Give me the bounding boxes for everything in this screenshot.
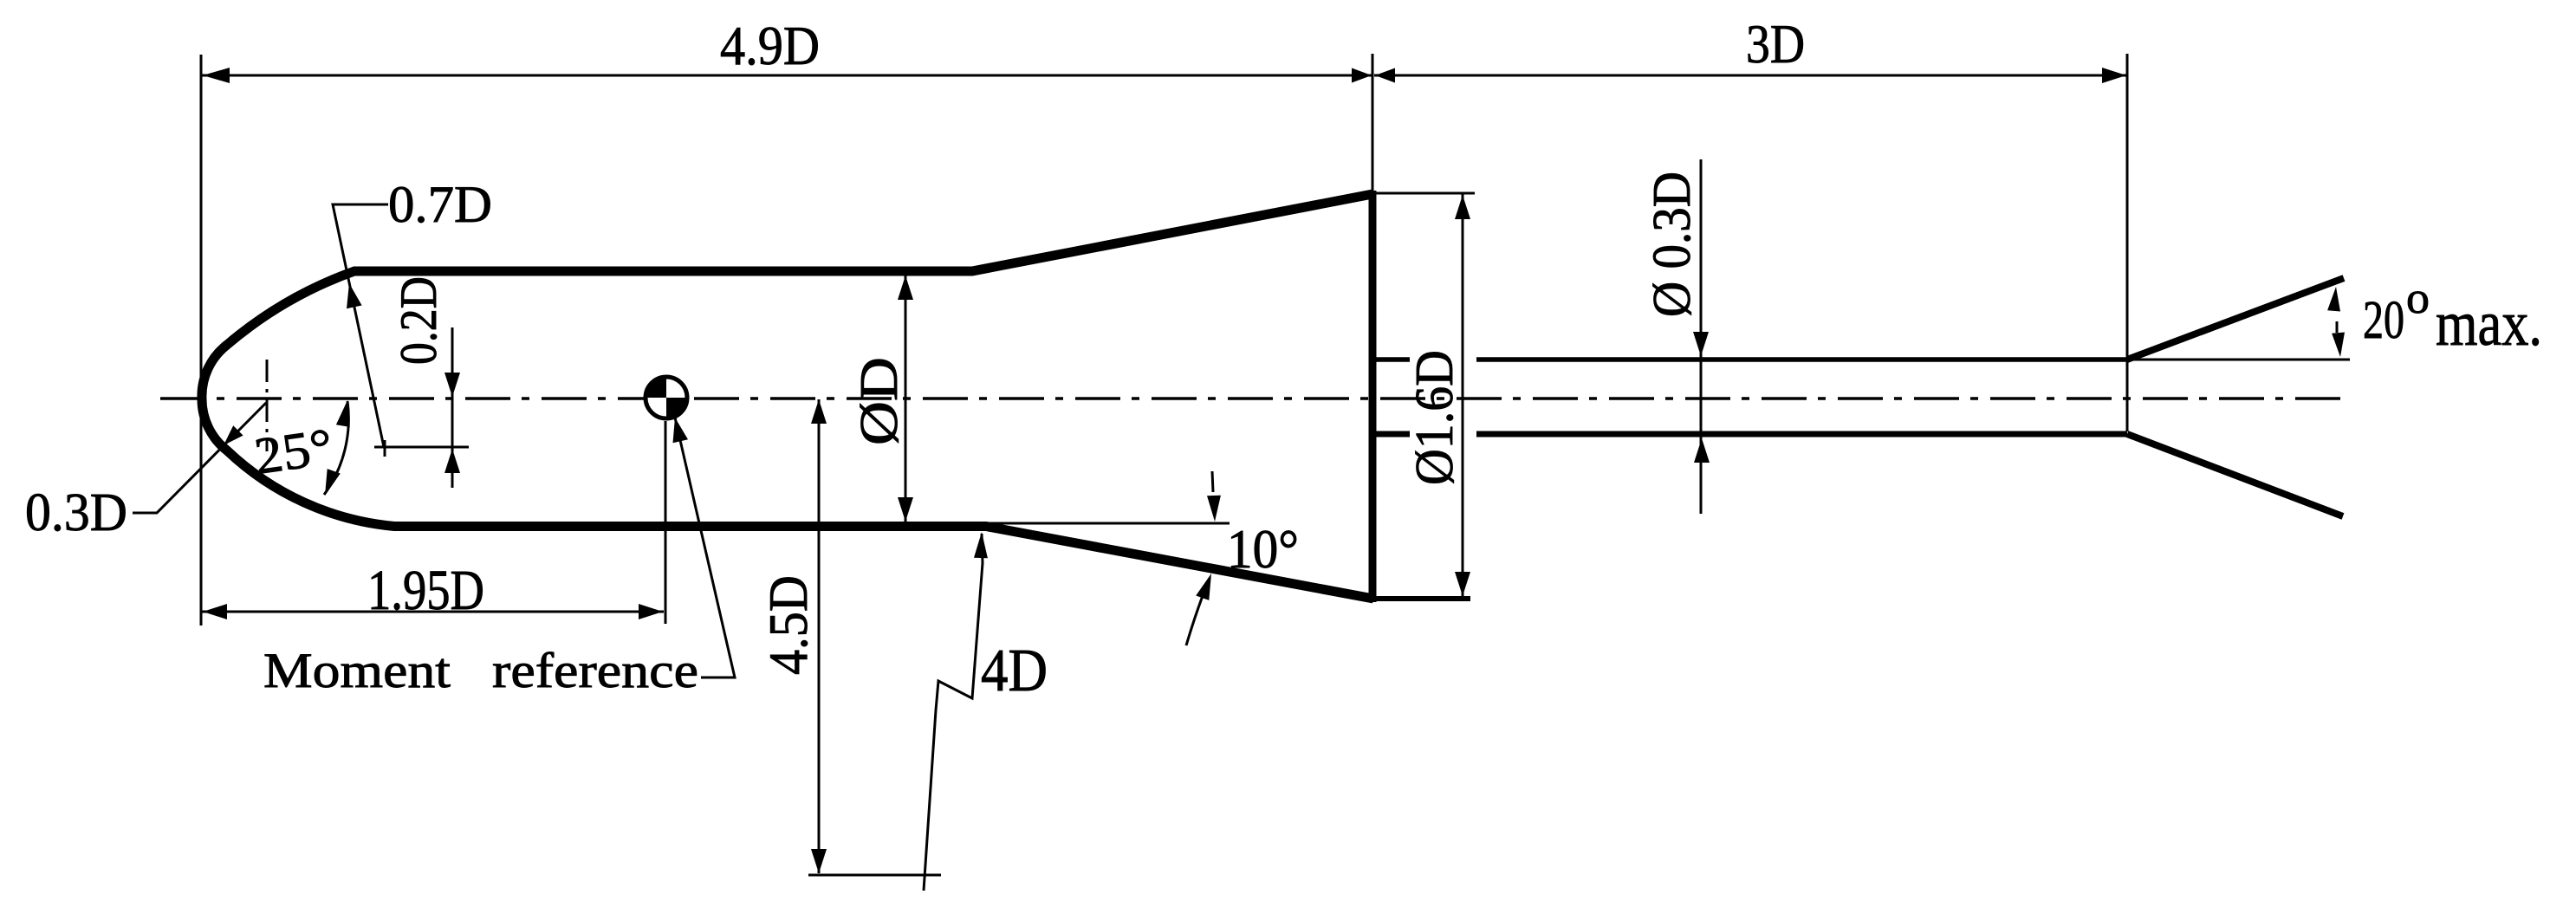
svg-text:1.95D: 1.95D [367, 559, 484, 622]
svg-text:ØD: ØD [850, 357, 909, 445]
moment reference symbol (CG circle) [646, 377, 687, 418]
sting lower surface [1376, 431, 2127, 438]
model centerline (dash-dot axis) [160, 397, 2344, 400]
model body outline: nose, cylinder, 10-deg flare [202, 194, 1373, 599]
extension line at sting end [2126, 54, 2129, 431]
20 deg dimension (dashed with arrows) [2336, 321, 2339, 333]
svg-text:max.: max. [2436, 288, 2542, 360]
tip radius centre marker (dash-dot vertical) [266, 360, 269, 451]
svg-text:o: o [2406, 274, 2430, 323]
dimension line 3D [1374, 75, 2127, 77]
dimension line 0.2D [451, 327, 454, 488]
10 deg lower leader arc [1186, 579, 1210, 645]
sting taper upper line (20 deg) [2127, 278, 2344, 360]
dimension line 4.5D [818, 399, 821, 873]
extension line at nose tip [200, 55, 203, 626]
leader for 0.3D tip radius [133, 403, 266, 513]
dimension line 1.6D [1462, 194, 1464, 597]
svg-text:reference: reference [492, 644, 698, 698]
dimension line 4.9D [202, 75, 1372, 77]
10 deg upper arrow with extension [1212, 471, 1213, 492]
svg-text:25°: 25° [251, 418, 336, 485]
leader from moment reference text to symbol [675, 418, 735, 677]
svg-text:4D: 4D [981, 638, 1048, 704]
thin horizontal reference line for 20 deg angle [2127, 359, 2350, 361]
svg-text:20: 20 [2363, 291, 2404, 350]
model base (flare base vertical line) [1369, 191, 1377, 602]
dimension line sting diameter 0.3D [1700, 159, 1703, 514]
sting taper lower line (20 deg) [2127, 434, 2343, 516]
svg-text:Moment: Moment [263, 644, 451, 698]
sting upper surface [1376, 357, 2127, 362]
svg-text:10°: 10° [1227, 519, 1299, 580]
leader with break for 4D station [924, 534, 983, 891]
svg-text:0.3D: 0.3D [25, 483, 127, 542]
svg-text:4.5D: 4.5D [757, 575, 819, 675]
extension line below moment centre [665, 421, 667, 624]
svg-text:Ø1.6D: Ø1.6D [1405, 350, 1464, 485]
0.7D arc centre cross [374, 440, 469, 457]
leader for 0.7D radius [333, 204, 388, 447]
angular dimension arc 25 deg [324, 401, 348, 495]
dimension line 1.95D [202, 611, 664, 613]
base top extension (thin) [1372, 192, 1475, 195]
extension line at flare base (top) [1372, 54, 1374, 193]
dimension line for body diameter D [905, 275, 907, 522]
base bottom extension (thick) [1372, 596, 1470, 601]
bottom datum line [808, 874, 941, 877]
svg-text:0.2D: 0.2D [390, 276, 447, 365]
svg-text:Ø 0.3D: Ø 0.3D [1643, 172, 1702, 317]
svg-text:0.7D: 0.7D [388, 176, 492, 233]
thin reference line extending cylinder bottom [986, 522, 1230, 525]
svg-text:3D: 3D [1746, 14, 1805, 75]
svg-text:4.9D: 4.9D [720, 15, 820, 76]
